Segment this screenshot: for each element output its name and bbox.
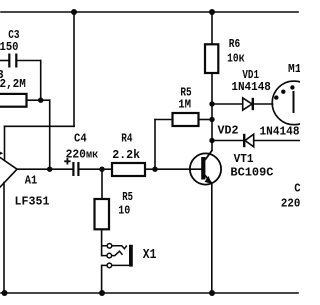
wire V+ drop into op-amp top edge [4,126,6,160]
resistor R6 [205,44,218,73]
svg-text:BC109C: BC109C [230,165,273,179]
svg-text:150: 150 [0,40,19,54]
wire bottom ground rail [1,292,298,294]
junction dot top rail right [209,9,215,15]
resistor R5 1M [173,113,199,126]
svg-text:1N4148: 1N4148 [260,124,300,138]
junction dot ground left [2,290,8,296]
junction node B [38,98,43,103]
diode VD2 [244,134,254,147]
transistor VT1 [190,150,221,184]
svg-text:2,2M: 2,2M [0,77,26,91]
svg-text:R5: R5 [122,190,133,204]
wire horizontal V+ run to op-amp [5,125,75,127]
svg-text:R6: R6 [229,37,240,51]
wire C3 right lead to corner [17,60,40,62]
svg-text:1M: 1M [178,98,191,112]
wire node B to feedback corner [41,99,50,101]
wire V- from op-amp bottom edge to ground rail [3,183,5,294]
resistor R3 [0,94,27,107]
wire vertical from top rail to op-amp V+ corner [73,12,75,126]
svg-text:VT1: VT1 [234,152,254,166]
svg-text:C4: C4 [74,132,87,146]
svg-text:220: 220 [281,196,300,210]
wire R4 to node D [145,168,155,170]
wire jack tip down to ground [101,265,103,293]
wire top rail to R6 [211,12,213,44]
capacitor C3 [8,54,17,68]
junction VD2 branch [209,138,214,143]
wire op-amp output [17,168,50,170]
junction dot top rail left [71,9,77,15]
svg-text:R4: R4 [121,131,132,145]
junction node output [47,167,52,172]
wire C3 left lead [0,60,8,62]
resistor R5 10 [95,199,110,229]
svg-text:10к: 10к [227,50,245,65]
op-amp A1 [0,146,17,205]
junction dot ground jack [99,290,105,296]
wire VD1 row from column [212,103,243,105]
input arrow mark (clipped) [0,151,3,155]
wire output node to C4 [50,168,73,170]
wire node C down to R5 10 [101,169,103,199]
svg-text:2.2k: 2.2k [112,148,140,162]
wire C3 corner down to node B [40,61,42,101]
svg-text:VD2: VD2 [218,124,239,138]
wire node D up to R5 1M [154,120,156,170]
wire C4 to node C [80,168,103,170]
svg-text:220мк: 220мк [66,147,99,161]
svg-text:X1: X1 [143,247,157,263]
wire VD1 to meter [254,103,273,105]
svg-text:1N4148: 1N4148 [231,80,271,94]
svg-text:C: C [294,181,300,195]
junction dot ground emitter [209,290,215,296]
meter M1 [272,81,316,125]
junction VD1 branch [209,101,214,106]
wire base of VT1 [155,168,201,170]
svg-text:A1: A1 [25,174,38,188]
diode VD1 [243,98,253,110]
wire VD2 to right edge [254,140,300,142]
wire R5 1M right lead [199,119,213,121]
connector X1 jack with switch contacts [102,244,129,268]
capacitor C4 [72,162,79,176]
wire top supply rail [1,11,298,13]
wire emitter down to ground rail [211,184,213,294]
wire VD2 row from column [212,140,244,142]
wire node C to R4 [102,168,112,170]
junction node C [99,167,104,172]
junction R5 1M branch [209,117,214,122]
wire R5 1M left lead [155,119,173,121]
wire feedback vertical down to output node [49,100,51,169]
wire R3 right lead [27,99,41,101]
junction node D [152,167,157,172]
svg-text:M1: M1 [288,62,300,76]
resistor R4 [112,163,145,176]
wire R6 to collector column [211,73,213,150]
wire R5 10 down to jack contacts [101,229,103,255]
svg-text:10: 10 [118,203,130,217]
svg-text:LF351: LF351 [15,195,50,209]
